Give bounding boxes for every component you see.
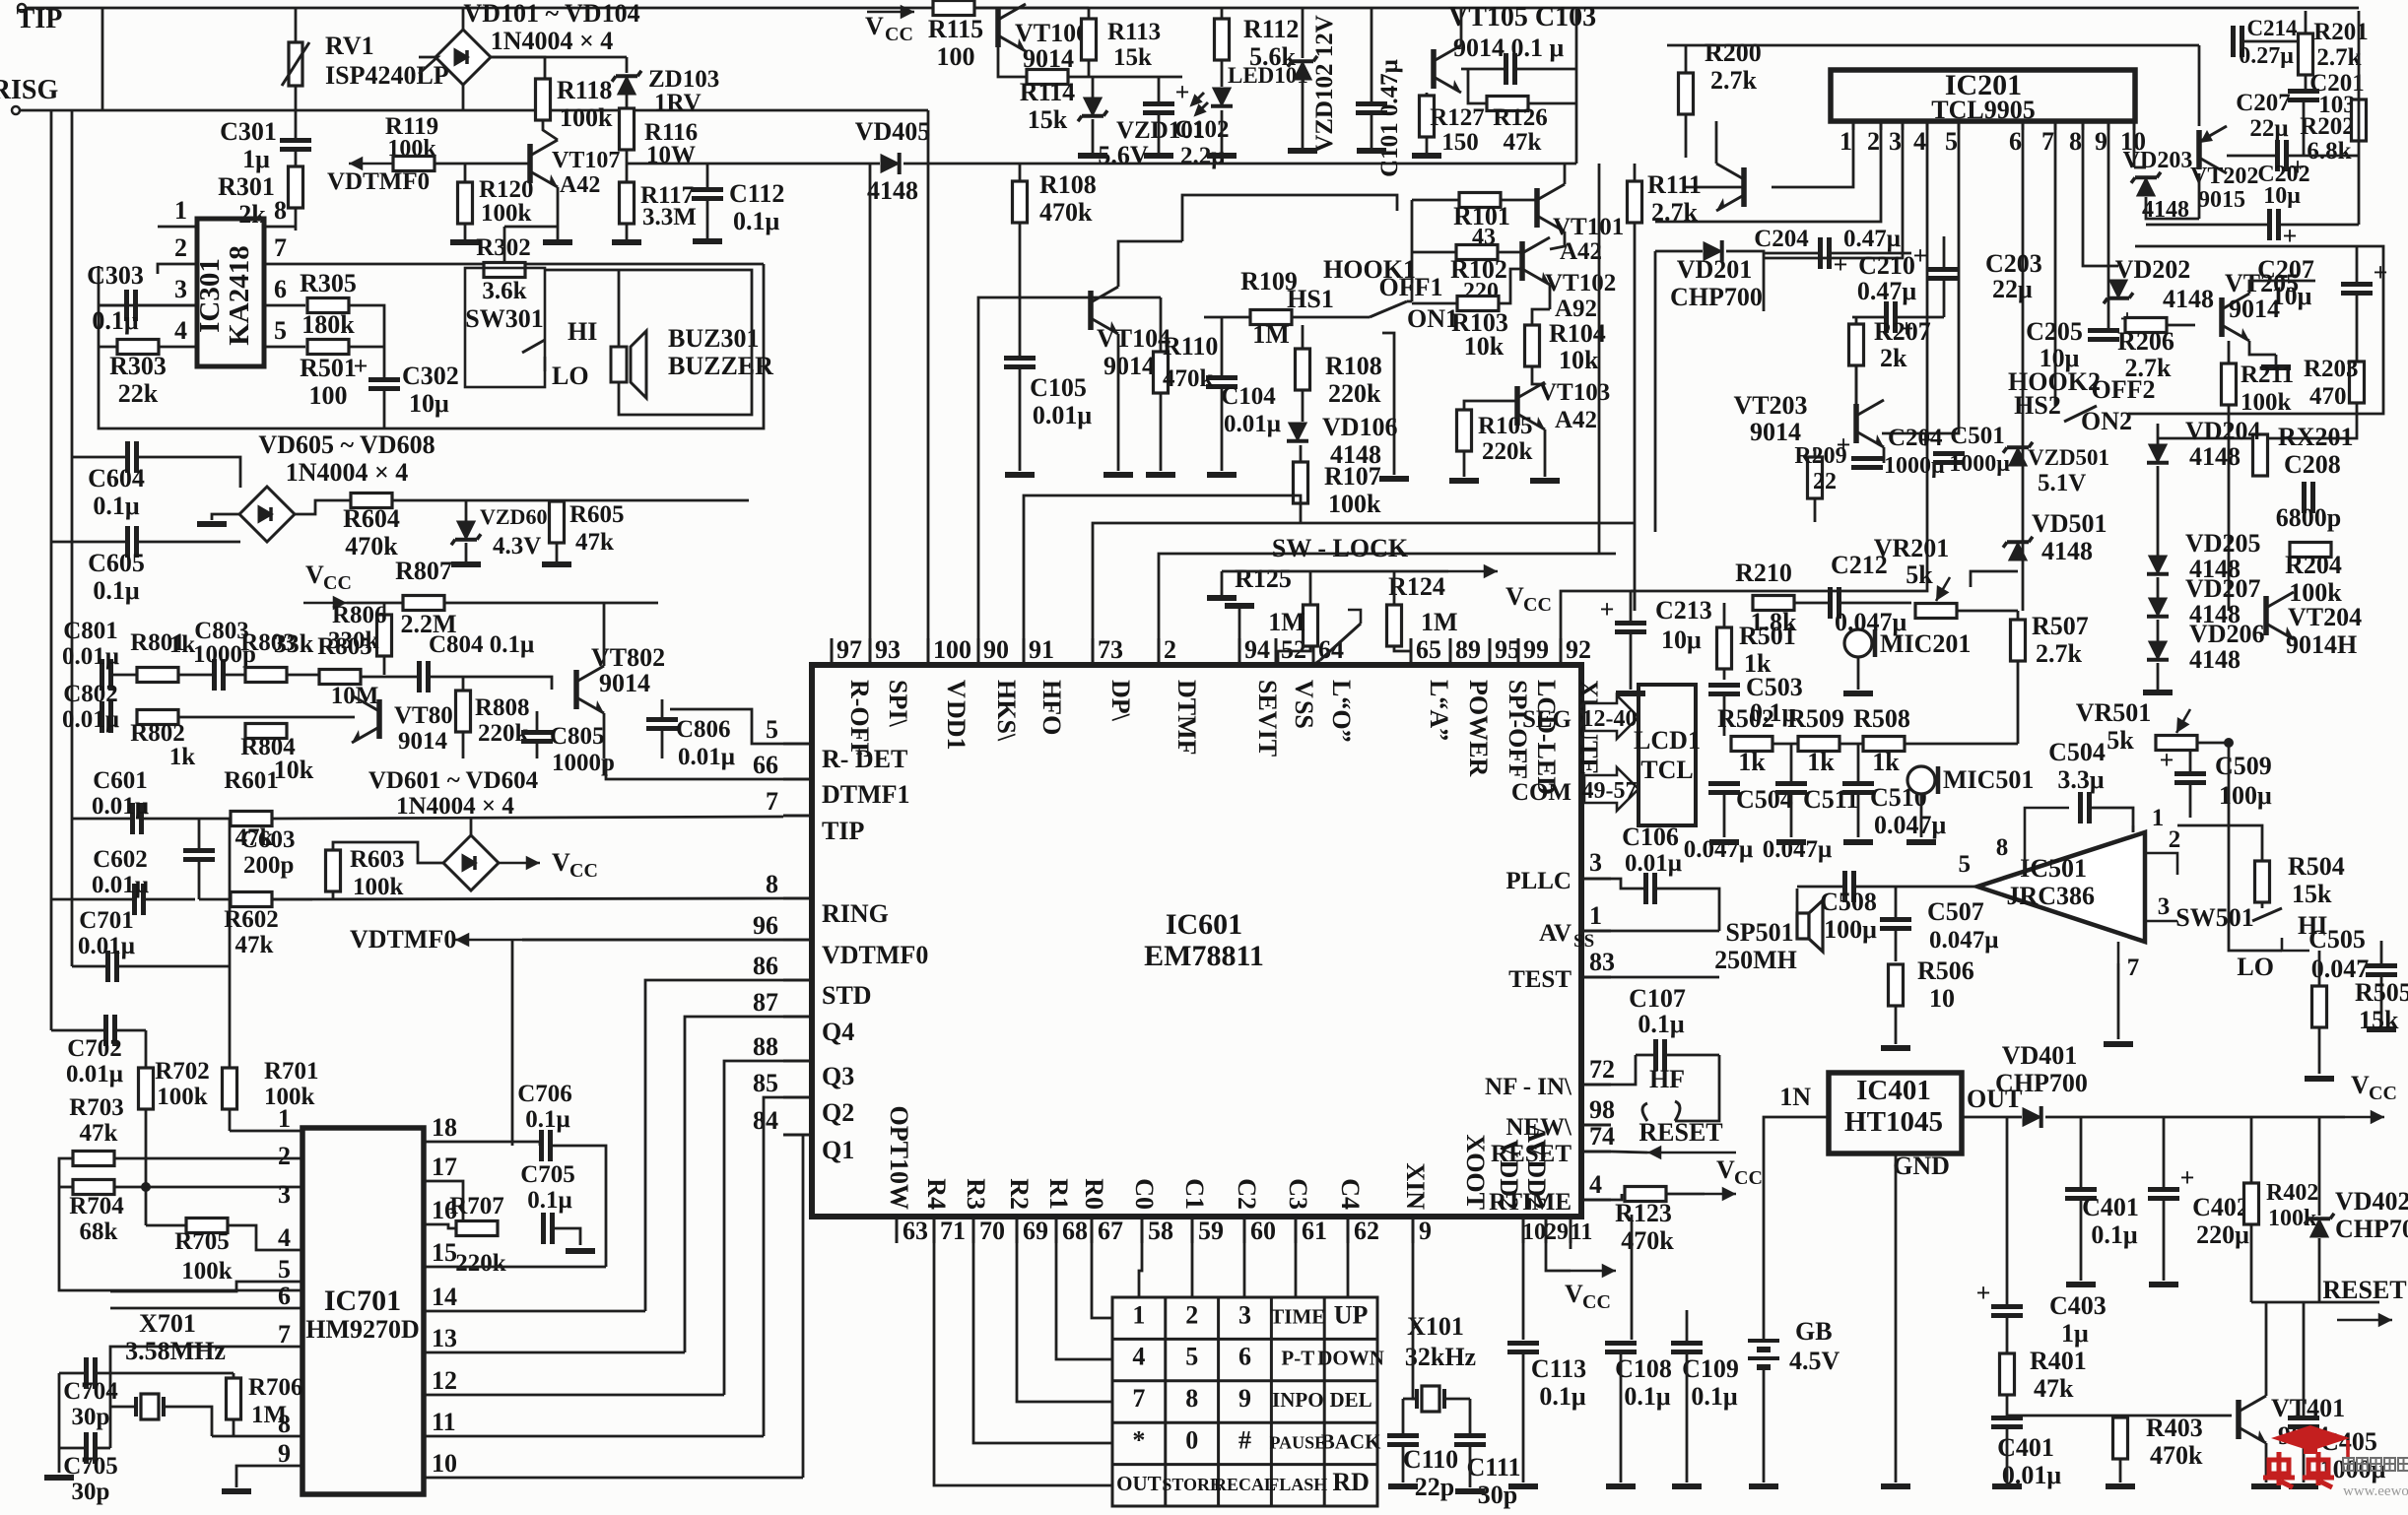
ground bridge605 xyxy=(212,514,239,520)
svg-text:5.1V: 5.1V xyxy=(2038,470,2086,496)
svg-text:CC: CC xyxy=(1734,1167,1763,1189)
svg-text:C701: C701 xyxy=(79,907,134,934)
svg-text:1k: 1k xyxy=(169,744,196,770)
svg-text:LO: LO xyxy=(2237,953,2274,981)
capacitor C108 xyxy=(1605,1344,1637,1352)
capacitor C705b xyxy=(87,1432,96,1464)
svg-text:70: 70 xyxy=(979,1217,1005,1245)
svg-text:VT203: VT203 xyxy=(1733,391,1807,420)
svg-text:15k: 15k xyxy=(2359,1006,2399,1034)
watermark logo xyxy=(2271,1425,2350,1458)
resistor R116 xyxy=(620,108,635,150)
svg-text:C108: C108 xyxy=(1615,1354,1672,1383)
transistor VT105 xyxy=(1434,45,1461,93)
svg-text:86: 86 xyxy=(753,952,778,980)
svg-text:VDTMF0: VDTMF0 xyxy=(822,941,928,969)
svg-text:R805: R805 xyxy=(317,633,372,660)
wire pin3 ladder xyxy=(1764,130,1903,258)
svg-text:470k: 470k xyxy=(1163,365,1214,392)
svg-text:99: 99 xyxy=(1523,635,1549,664)
svg-text:47k: 47k xyxy=(575,529,614,556)
transistor VT801 xyxy=(352,695,379,743)
svg-text:470k: 470k xyxy=(2150,1441,2203,1470)
svg-text:LCD1: LCD1 xyxy=(1634,726,1701,755)
wire pin93 vertical xyxy=(869,164,872,638)
svg-text:1000μ: 1000μ xyxy=(1949,451,2010,477)
pin 10 IC601 XOOT xyxy=(1522,1217,1525,1243)
transistor VT102 xyxy=(1522,237,1550,285)
capacitor C511 xyxy=(1775,784,1807,793)
svg-text:C603: C603 xyxy=(240,826,296,853)
svg-text:0.047μ: 0.047μ xyxy=(1835,608,1907,636)
svg-text:0.1μ: 0.1μ xyxy=(93,492,140,520)
wire pin9 gnd xyxy=(236,1466,302,1487)
svg-text:DTMF1: DTMF1 xyxy=(822,780,910,809)
wire pin8 ladder xyxy=(2083,130,2118,266)
transistor VT104 xyxy=(1091,287,1118,334)
svg-text:R403: R403 xyxy=(2146,1414,2203,1442)
svg-text:VD201: VD201 xyxy=(1677,255,1753,284)
pin 83 TEST xyxy=(1581,976,1611,979)
svg-text:5: 5 xyxy=(1945,127,1958,156)
pin 74 RESET xyxy=(1581,1151,1611,1153)
capacitor C102 xyxy=(1143,104,1174,113)
svg-text:MIC501: MIC501 xyxy=(1943,765,2034,794)
capacitor C111 xyxy=(1454,1436,1486,1445)
svg-text:10k: 10k xyxy=(274,756,314,784)
wire ON1 contact xyxy=(1382,333,1394,475)
pin 2 xyxy=(158,264,197,274)
svg-text:4148: 4148 xyxy=(2163,285,2214,313)
zener VZD101 xyxy=(1078,98,1107,121)
svg-text:INPO: INPO xyxy=(1272,1388,1324,1412)
pin 71 IC601 R4 xyxy=(933,1217,936,1243)
pin 66 IC601 DTMF1 xyxy=(783,778,812,781)
svg-text:4148: 4148 xyxy=(2189,442,2241,471)
svg-text:SW301: SW301 xyxy=(465,304,543,333)
svg-text:94: 94 xyxy=(1244,635,1270,664)
svg-text:1: 1 xyxy=(2152,805,2165,831)
svg-text:NEW\: NEW\ xyxy=(1505,1114,1572,1141)
resistor R105 xyxy=(1457,410,1472,451)
wire XOOT down xyxy=(1522,1243,1525,1340)
wire hook2 top xyxy=(2128,246,2383,414)
wire r110 top xyxy=(1091,296,1161,299)
svg-text:R126: R126 xyxy=(1493,104,1548,131)
svg-text:0.047μ: 0.047μ xyxy=(1874,811,1947,839)
svg-text:15k: 15k xyxy=(2292,880,2332,908)
svg-text:150: 150 xyxy=(1441,129,1479,156)
svg-text:V: V xyxy=(1505,582,1524,611)
svg-text:2: 2 xyxy=(1185,1300,1198,1329)
svg-text:0.1μ: 0.1μ xyxy=(1638,1010,1685,1038)
svg-text:0.01μ: 0.01μ xyxy=(1625,850,1682,877)
svg-text:OUT: OUT xyxy=(1116,1472,1162,1495)
svg-text:C210: C210 xyxy=(1858,251,1915,280)
transistor VT401 xyxy=(2239,1396,2266,1443)
svg-text:R707: R707 xyxy=(449,1193,504,1219)
svg-text:A42: A42 xyxy=(560,172,600,198)
capacitor C605 xyxy=(128,526,137,558)
pin 89 IC601 POWER xyxy=(1449,638,1452,665)
svg-text:68k: 68k xyxy=(80,1219,118,1245)
svg-text:C105: C105 xyxy=(1030,373,1087,402)
wire pin4 ladder xyxy=(1631,130,1927,591)
svg-text:100: 100 xyxy=(309,381,348,410)
svg-text:200p: 200p xyxy=(243,852,294,879)
pin 6 xyxy=(264,304,305,307)
capacitor C401 xyxy=(2065,1190,2097,1199)
capacitor C113 xyxy=(1507,1344,1539,1352)
svg-text:4148: 4148 xyxy=(867,176,918,205)
pin 1 xyxy=(158,226,197,229)
svg-text:32kHz: 32kHz xyxy=(1405,1343,1476,1371)
transistor VT202 9015 xyxy=(2199,126,2227,173)
resistor R801 xyxy=(137,668,178,683)
svg-text:0.47μ: 0.47μ xyxy=(1857,277,1917,305)
svg-text:R203: R203 xyxy=(2304,356,2359,382)
capacitor C504c xyxy=(1708,784,1740,793)
svg-text:VT107: VT107 xyxy=(552,148,620,173)
svg-text:30p: 30p xyxy=(72,1479,110,1505)
svg-text:96: 96 xyxy=(753,911,778,940)
svg-text:VD402: VD402 xyxy=(2335,1187,2408,1216)
svg-text:VT204: VT204 xyxy=(2288,603,2362,631)
resistor R502 xyxy=(1731,737,1773,752)
resistor R209 xyxy=(1808,457,1823,498)
svg-text:VDTMF0: VDTMF0 xyxy=(327,168,430,195)
wire left bus A xyxy=(50,110,53,1030)
svg-text:V: V xyxy=(1716,1155,1735,1184)
wire pin5 stub xyxy=(110,1282,302,1291)
svg-text:RESET: RESET xyxy=(1639,1118,1722,1147)
keypad matrix xyxy=(1112,1297,1377,1506)
svg-text:13: 13 xyxy=(432,1324,457,1352)
transistor VT203 xyxy=(1856,400,1884,447)
svg-text:RESET: RESET xyxy=(2322,1276,2406,1304)
switch lock lever xyxy=(1313,660,1320,665)
wires q nest xyxy=(645,980,783,1311)
svg-text:HM9270D: HM9270D xyxy=(305,1315,420,1344)
watermark bug glyphs xyxy=(2263,1452,2295,1487)
svg-text:VD501: VD501 xyxy=(2032,509,2107,538)
wire pin94 gnd stub xyxy=(1238,609,1241,638)
wires hook2 block xyxy=(2157,424,2160,444)
diode VD206 xyxy=(2147,641,2169,660)
svg-text:R110: R110 xyxy=(1163,332,1218,361)
pin 69 IC601 R2 xyxy=(1016,1217,1019,1243)
resistor R602 xyxy=(231,892,272,907)
svg-text:R507: R507 xyxy=(2032,612,2089,640)
svg-text:1N4004 × 4: 1N4004 × 4 xyxy=(396,793,514,820)
pin 8 IC601 RING xyxy=(783,897,812,900)
svg-text:0.01μ: 0.01μ xyxy=(92,793,149,820)
resistor R303 xyxy=(117,340,159,355)
svg-text:R603: R603 xyxy=(350,846,405,873)
svg-text:R123: R123 xyxy=(1615,1199,1672,1227)
resistor R305 xyxy=(307,298,349,313)
svg-text:0.01μ: 0.01μ xyxy=(62,643,119,670)
svg-text:VD101 ~ VD104: VD101 ~ VD104 xyxy=(463,0,639,28)
capacitor C501 xyxy=(1933,454,1965,463)
pin 7 IC501 xyxy=(2117,942,2120,963)
pin 7 IC601 TIP xyxy=(783,815,812,818)
svg-text:VDTMF0: VDTMF0 xyxy=(350,925,456,954)
pin 3 IC201 xyxy=(1902,121,1905,130)
resistor R401 xyxy=(2000,1353,2015,1395)
resistor R806 xyxy=(377,615,392,656)
svg-text:2: 2 xyxy=(2169,826,2181,853)
capacitor C109 xyxy=(1671,1344,1703,1352)
svg-text:SPI\: SPI\ xyxy=(884,680,912,727)
svg-text:+: + xyxy=(354,352,368,380)
svg-text:STD: STD xyxy=(822,981,872,1010)
svg-text:*: * xyxy=(1132,1425,1145,1454)
wire right bus xyxy=(2358,11,2361,225)
svg-text:R0: R0 xyxy=(1080,1178,1108,1210)
resistor R111 xyxy=(1628,181,1642,223)
svg-text:C208: C208 xyxy=(2284,450,2341,479)
pin 5 IC201 xyxy=(1958,121,1961,130)
svg-text:V: V xyxy=(1565,1280,1583,1308)
resistor R505 xyxy=(2312,986,2327,1027)
resistor R803 xyxy=(245,668,287,683)
svg-text:C508: C508 xyxy=(1820,888,1877,916)
pin 68 IC601 R1 xyxy=(1055,1217,1058,1243)
svg-text:CHP700: CHP700 xyxy=(2335,1215,2408,1243)
svg-text:SEG: SEG xyxy=(1522,706,1572,733)
svg-text:C1: C1 xyxy=(1180,1178,1209,1210)
svg-text:R706: R706 xyxy=(248,1374,303,1401)
svg-text:3: 3 xyxy=(278,1180,291,1209)
svg-text:4: 4 xyxy=(1913,127,1926,156)
svg-text:8: 8 xyxy=(2069,127,2082,156)
arrow SEG xyxy=(1584,695,1639,739)
svg-text:C507: C507 xyxy=(1927,897,1984,926)
svg-text:91: 91 xyxy=(1029,635,1054,664)
resistor R707 xyxy=(456,1221,498,1236)
resistor R701 xyxy=(223,1068,237,1109)
svg-text:C207: C207 xyxy=(2236,90,2291,116)
svg-text:C511: C511 xyxy=(1803,785,1858,814)
pin 4 IC201 xyxy=(1926,121,1929,130)
svg-text:C207: C207 xyxy=(2257,255,2314,284)
wire block outline xyxy=(1182,195,1397,241)
capacitor C508 xyxy=(1845,871,1854,902)
svg-text:11: 11 xyxy=(432,1408,456,1436)
svg-text:R206: R206 xyxy=(2117,327,2174,356)
capacitor C103 xyxy=(1506,53,1515,85)
svg-text:9014: 9014 xyxy=(1104,352,1155,380)
svg-text:VD106: VD106 xyxy=(1322,413,1398,441)
svg-text:VD202: VD202 xyxy=(2115,255,2191,284)
svg-text:R120: R120 xyxy=(479,176,534,203)
resistor R113 xyxy=(1082,19,1097,60)
svg-text:C802: C802 xyxy=(63,681,118,707)
svg-text:1000μ: 1000μ xyxy=(1884,453,1945,479)
svg-text:HKS\: HKS\ xyxy=(992,680,1021,742)
transistor VT107 xyxy=(530,140,558,187)
wire sw301 to vt107 xyxy=(504,226,558,229)
wire pin18 vdtmf xyxy=(511,940,514,1146)
svg-text:5: 5 xyxy=(278,1255,291,1284)
wire base node xyxy=(2007,1415,2232,1417)
resistor R200 xyxy=(1679,73,1694,114)
svg-text:R202: R202 xyxy=(2300,113,2355,140)
wires IC701 right to IC601 qlines xyxy=(424,1310,645,1313)
capacitor C802 xyxy=(102,701,111,733)
IC regulator IC401 HT1045 xyxy=(1829,1073,1962,1153)
svg-text:10μ: 10μ xyxy=(1661,626,1702,654)
pin 73 IC601 DP\ xyxy=(1092,638,1095,665)
svg-text:15k: 15k xyxy=(1113,44,1152,71)
IC op-amp IC301 xyxy=(197,219,264,366)
svg-text:RV1: RV1 xyxy=(325,32,374,60)
svg-text:X701: X701 xyxy=(139,1309,196,1338)
svg-text:C205: C205 xyxy=(2026,317,2083,346)
svg-text:5: 5 xyxy=(766,715,778,744)
svg-text:C106: C106 xyxy=(1622,823,1679,851)
svg-text:30p: 30p xyxy=(72,1404,110,1430)
svg-text:87: 87 xyxy=(753,988,778,1017)
svg-text:66: 66 xyxy=(753,751,778,779)
potentiometer VR501 sym xyxy=(2229,743,2282,951)
capacitor C503 xyxy=(1708,686,1740,694)
resistor R201 xyxy=(2299,33,2313,75)
svg-text:3.3M: 3.3M xyxy=(642,204,697,231)
pin 67 IC601 R0 xyxy=(1091,1217,1094,1243)
IC regulator IC201 xyxy=(1831,70,2135,121)
resistor R112 xyxy=(1215,19,1230,60)
svg-text:0.1μ: 0.1μ xyxy=(525,1106,569,1133)
capacitor C801 xyxy=(102,659,111,691)
pin 8 IC201 xyxy=(2082,121,2085,130)
svg-text:83: 83 xyxy=(1589,948,1615,976)
svg-text:C805: C805 xyxy=(550,723,605,750)
svg-text:EM78811: EM78811 xyxy=(1144,940,1264,972)
svg-text:180k: 180k xyxy=(301,310,355,339)
svg-text:PAUSE: PAUSE xyxy=(1269,1432,1326,1452)
svg-text:R111: R111 xyxy=(1647,170,1702,199)
wire left block xyxy=(99,264,764,428)
resistor R402 xyxy=(2244,1183,2259,1224)
svg-text:9015: 9015 xyxy=(2198,187,2245,213)
wires keypad cols xyxy=(1139,1243,1142,1297)
resistor R108b xyxy=(1296,349,1310,390)
svg-text:Q2: Q2 xyxy=(822,1098,854,1127)
svg-text:2.7k: 2.7k xyxy=(2125,354,2173,382)
svg-text:2: 2 xyxy=(1164,635,1176,664)
svg-text:100μ: 100μ xyxy=(2219,781,2272,810)
svg-text:C706: C706 xyxy=(517,1081,572,1107)
svg-text:R4: R4 xyxy=(922,1178,951,1210)
pin 95 IC601 SPI-OFF xyxy=(1489,638,1492,665)
svg-text:ON1: ON1 xyxy=(1407,304,1458,333)
capacitor C604 xyxy=(128,441,137,473)
wires keypad rows xyxy=(1092,1243,1112,1318)
svg-text:33k: 33k xyxy=(274,629,314,658)
svg-text:9014: 9014 xyxy=(599,669,650,697)
svg-text:3: 3 xyxy=(174,275,187,303)
svg-text:R114: R114 xyxy=(1020,78,1075,106)
svg-text:C113: C113 xyxy=(1531,1354,1586,1383)
svg-text:10: 10 xyxy=(432,1449,457,1478)
microphone MIC501 xyxy=(1907,766,1935,794)
svg-text:C0: C0 xyxy=(1130,1178,1159,1210)
svg-text:IC601: IC601 xyxy=(1166,908,1242,941)
buzzer BUZ301 xyxy=(611,331,646,398)
svg-text:7: 7 xyxy=(2127,955,2140,981)
resistor R118 xyxy=(536,79,551,120)
svg-text:22k: 22k xyxy=(118,379,159,408)
net Vcc vdd2 xyxy=(1546,1243,1571,1271)
svg-text:+: + xyxy=(1918,426,1933,454)
svg-text:1: 1 xyxy=(1589,901,1602,930)
svg-text:6: 6 xyxy=(274,275,287,303)
svg-text:10μ: 10μ xyxy=(2272,282,2312,310)
svg-text:98: 98 xyxy=(1589,1095,1615,1124)
svg-text:VZD601: VZD601 xyxy=(480,504,558,529)
resistor R115 xyxy=(933,1,974,16)
svg-text:0.047μ: 0.047μ xyxy=(1929,927,1998,954)
node RISG terminal xyxy=(12,106,20,114)
svg-text:22μ: 22μ xyxy=(1992,275,2033,303)
pin 96 IC601 VDTMF0 xyxy=(783,939,812,942)
capacitor C510 xyxy=(1842,784,1874,793)
pin 91 IC601 HFO xyxy=(1023,638,1026,665)
pin 92 IC601 XMUTE xyxy=(1560,638,1563,665)
svg-text:0.27μ: 0.27μ xyxy=(2239,43,2294,69)
pin 63 IC601 OPT10W xyxy=(896,1217,899,1243)
svg-text:R502: R502 xyxy=(1717,704,1774,733)
svg-text:8: 8 xyxy=(274,196,287,225)
svg-text:C704: C704 xyxy=(63,1378,118,1405)
svg-text:47k: 47k xyxy=(1504,129,1542,156)
svg-text:470k: 470k xyxy=(345,532,398,560)
svg-text:R508: R508 xyxy=(1853,704,1910,733)
svg-text:HFO: HFO xyxy=(1037,680,1066,735)
svg-text:100: 100 xyxy=(933,635,971,664)
svg-text:1μ: 1μ xyxy=(2061,1319,2089,1348)
diode VD203 xyxy=(2131,172,2161,196)
svg-text:R115: R115 xyxy=(928,15,983,43)
svg-text:SW501: SW501 xyxy=(2175,903,2253,932)
switch SW301 xyxy=(465,268,545,387)
svg-text:100k: 100k xyxy=(157,1084,208,1110)
transistor VT101 xyxy=(1537,184,1565,231)
svg-text:3: 3 xyxy=(1889,127,1902,156)
resistor RX201 xyxy=(2253,434,2268,476)
svg-text:C504: C504 xyxy=(2048,738,2106,766)
svg-text:9: 9 xyxy=(278,1439,291,1468)
resistor R702 xyxy=(139,1068,154,1109)
wire pin6 stub xyxy=(110,1307,302,1310)
svg-text:2: 2 xyxy=(1867,127,1880,156)
pin 8 IC501 xyxy=(2025,808,2069,872)
wire bus dtmf 562 xyxy=(1159,554,1616,638)
zener VZD102 xyxy=(1288,56,1317,80)
svg-text:C504: C504 xyxy=(1736,785,1793,814)
wire swlock top xyxy=(1222,570,1448,573)
pin 98 NEW xyxy=(1581,1124,1611,1127)
pin 2 IC601 DTMF xyxy=(1158,638,1161,665)
resistor R804 xyxy=(245,724,287,739)
wire line B xyxy=(1667,44,2199,47)
svg-text:+: + xyxy=(1600,595,1615,624)
svg-text:OFF1: OFF1 xyxy=(1379,273,1443,301)
wire pin6 ladder xyxy=(2022,130,2025,611)
wire pin90 vertical xyxy=(978,297,1020,638)
